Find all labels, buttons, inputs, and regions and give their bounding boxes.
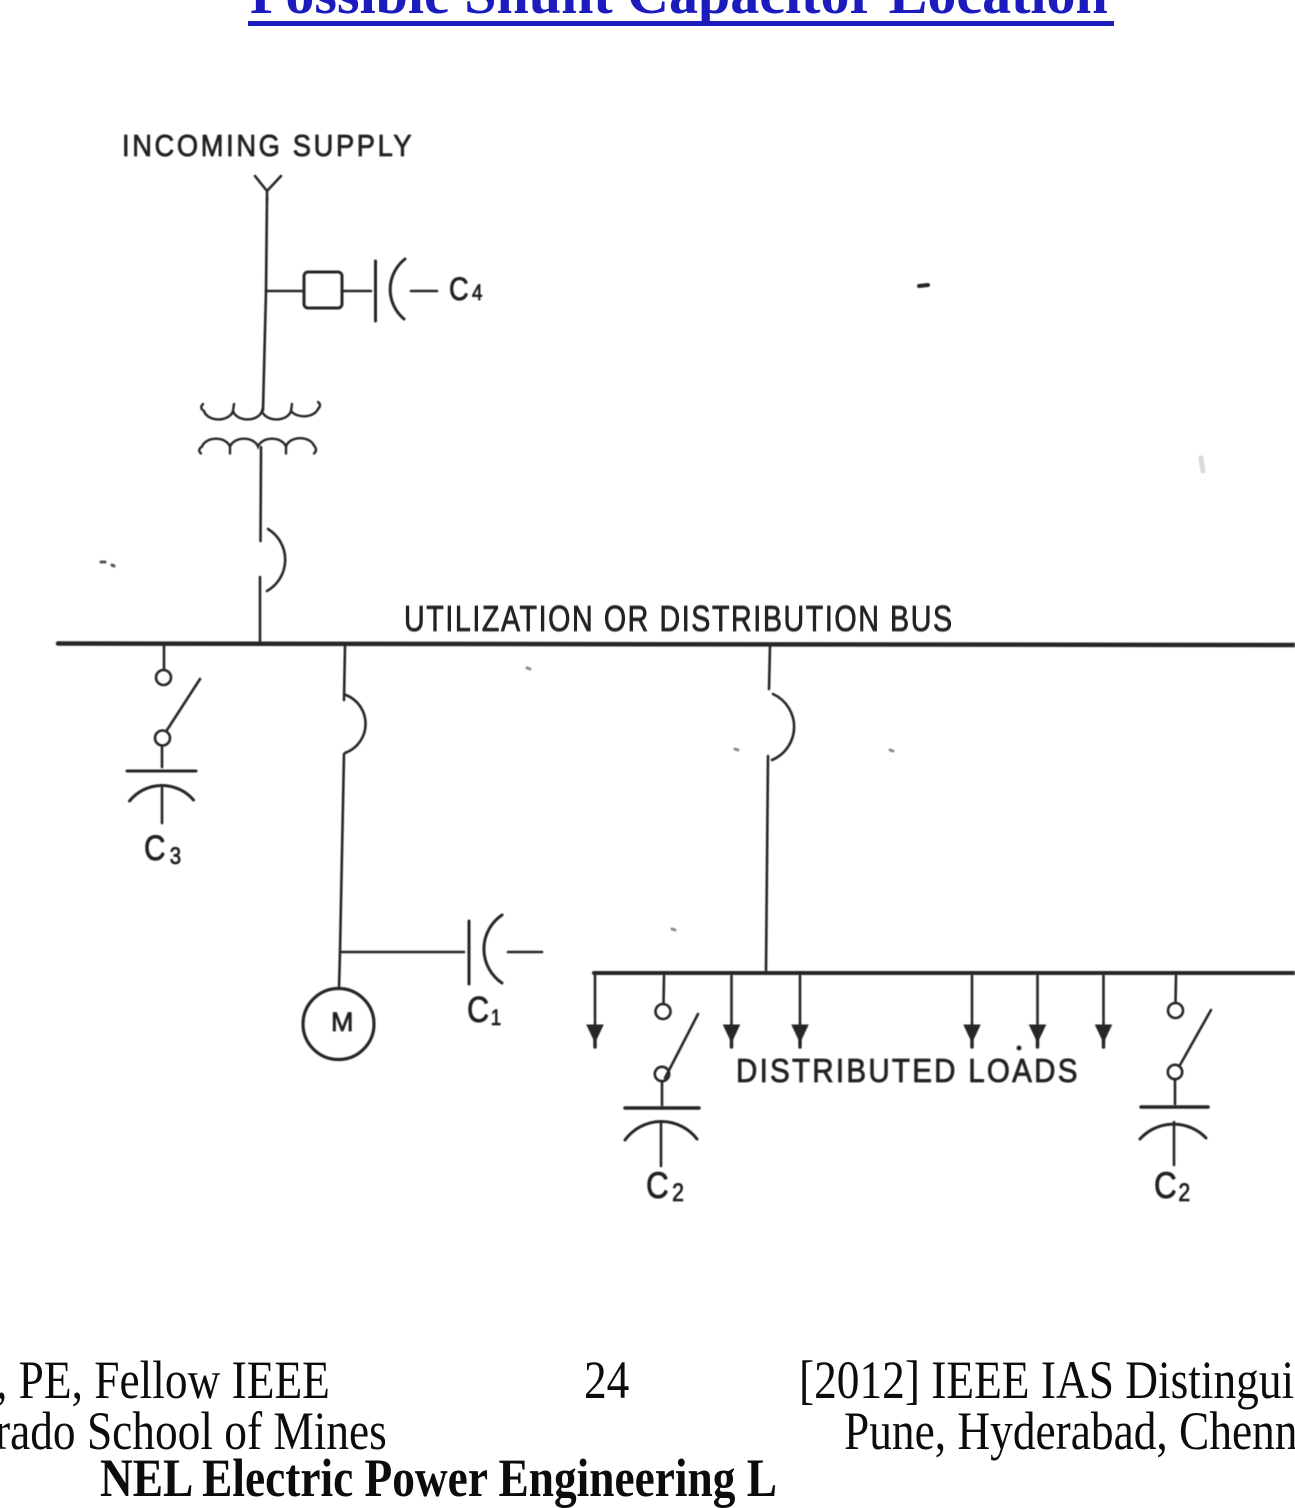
disconnect switch for C3: blade [167,679,200,730]
circuit breaker 3 (distribution feeder) [772,694,794,760]
capacitor C1 [469,915,542,984]
scan speck: dash upper right [919,285,928,286]
load arrow 5 [1030,976,1046,1047]
footer left line 2 [0,1404,387,1458]
footer left line 1 [0,1353,330,1407]
distribution sub-bus [594,971,1294,975]
label UTILIZATION OR DISTRIBUTION BUS [404,598,954,640]
scan speck: faint dots mid page [527,668,893,930]
wire: tap to switch box of C4 [266,290,303,293]
wire: tap to motor [339,952,340,988]
motor M [303,989,374,1060]
label C2 (left) [646,1165,684,1208]
label INCOMING SUPPLY [122,128,414,164]
wire: bus to breaker 2 [344,646,345,700]
wire: bus to breaker 3 [769,646,770,689]
scan speck: dot above LOADS label [1017,1046,1022,1051]
utilization / distribution bus [58,644,1295,646]
wire: box to capacitor C4 [342,290,371,293]
load arrow 1 [587,973,603,1047]
switch for right C2: blade [1180,1010,1211,1065]
wire: switch to capacitor C2 (left) [661,1081,664,1105]
wire: motor tap to capacitor C1 [340,951,464,954]
circuit breaker 1 (incoming) [267,529,285,591]
footer page number 24 [584,1353,629,1407]
load arrow 4 [964,976,980,1047]
wire: incoming line from Y to C4 tap [266,198,267,291]
disconnect switch for C3: bottom contact [155,731,170,746]
footer right line 2 [844,1404,1295,1458]
transformer T1 primary winding [201,402,320,419]
capacitor C2 (right) [1140,1107,1208,1165]
incoming supply Y symbol [255,176,281,200]
wire: transformer to breaker 1 [259,447,262,541]
load arrow 3 [792,976,808,1047]
label C3 [144,829,181,871]
capacitor C3 [127,771,196,823]
wire: switch to capacitor C3 [161,746,164,767]
footer left line 3 (bold, mostly cut off) [100,1451,777,1505]
label DISTRIBUTED LOADS [736,1052,1080,1090]
footer right line 1 [799,1353,1295,1407]
switch for left C2: top contact [656,1004,671,1019]
wire: breaker 2 down to motor tap [340,754,344,951]
label C2 (right) [1154,1165,1190,1208]
wire: sub-bus to right C2 switch [1174,976,1177,1003]
circuit breaker 2 (motor feeder) [345,695,366,753]
capacitor C2 (left) [625,1108,699,1166]
load arrow 6 [1096,976,1112,1047]
wire: breaker 1 to bus [259,577,262,642]
switch box (C4 device) [304,272,342,308]
load arrow 2 [724,976,740,1047]
title underline [248,21,1114,27]
motor letter M [331,1007,354,1038]
title: Possible Shunt Capacitor Location [250,0,1108,23]
disconnect switch for C3: top contact [156,670,171,685]
scan speck: dots left of bus [101,562,114,566]
label C1 [467,989,501,1031]
switch for right C2: top contact [1168,1003,1183,1018]
switch for left C2: blade [665,1014,698,1078]
wire: sub-bus to left C2 switch [662,976,665,1004]
switch for right C2: bottom contact [1168,1065,1182,1079]
transformer T1 secondary winding [199,438,316,453]
wire: switch to capacitor C2 (right) [1174,1079,1177,1104]
capacitor C4 [376,259,438,321]
label C4 [449,271,482,308]
wire: bus to C3 switch [163,646,166,670]
scan speck: faint smudge right [1201,458,1203,471]
wire: breaker 3 to sub-bus [766,756,768,970]
wire: incoming line from C4 tap to transformer [263,291,266,410]
switch for left C2: bottom contact [655,1067,669,1081]
